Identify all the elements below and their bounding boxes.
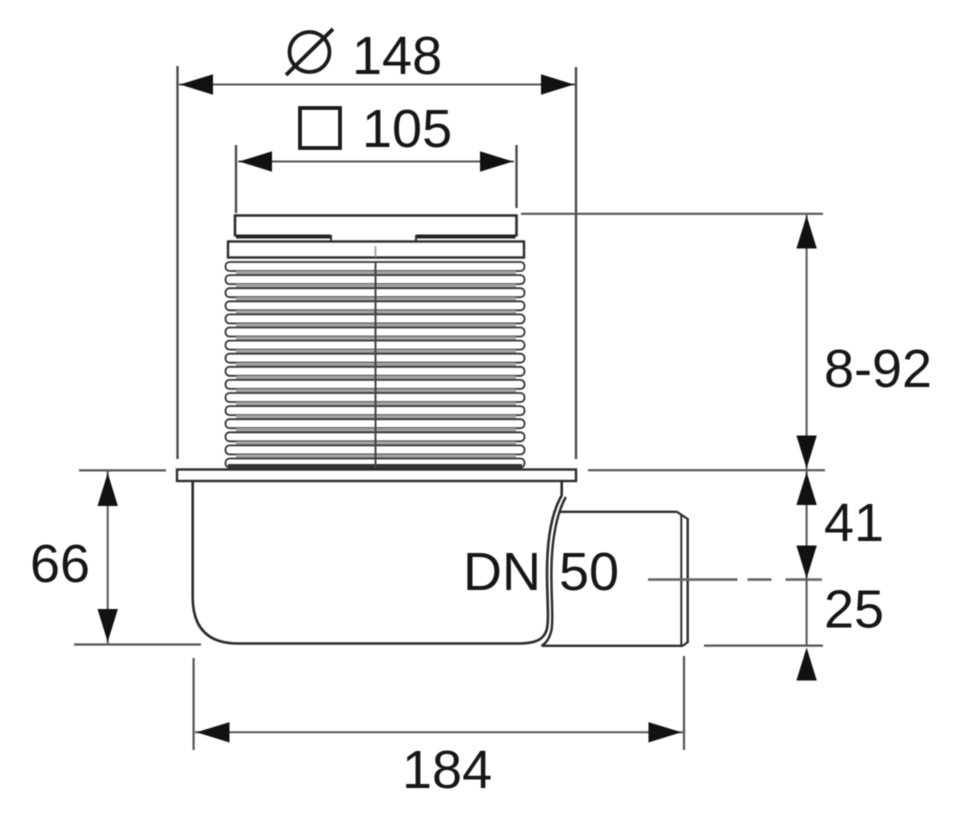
svg-text:105: 105 <box>362 99 452 159</box>
svg-text:66: 66 <box>30 534 90 594</box>
svg-text:184: 184 <box>402 740 492 800</box>
svg-text:148: 148 <box>352 26 442 86</box>
svg-text:25: 25 <box>824 580 884 640</box>
svg-text:50: 50 <box>559 542 619 602</box>
svg-text:8-92: 8-92 <box>824 339 932 399</box>
svg-text:41: 41 <box>824 493 884 553</box>
svg-text:DN: DN <box>463 542 541 602</box>
